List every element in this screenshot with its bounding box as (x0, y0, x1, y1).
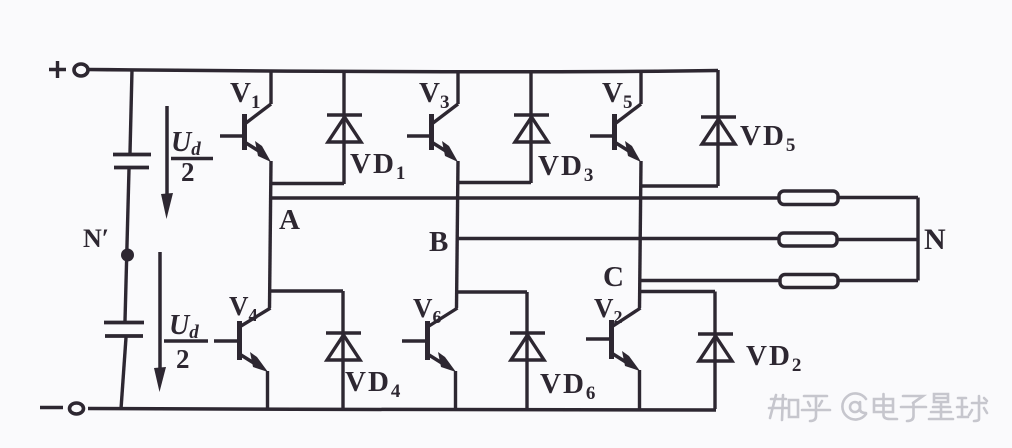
svg-text:N′: N′ (83, 224, 109, 253)
球 (957, 396, 987, 421)
label VD6 (540, 368, 595, 404)
wire leg 2 vertical (V3 emitter to V6 collector) (457, 161, 459, 308)
capacitor C upper (113, 155, 151, 168)
wire resistor B to N (837, 238, 918, 241)
watermark zhihu (769, 394, 987, 422)
wire top DC+ rail (88, 70, 718, 72)
wire V2 collector to VD2 cathode (639, 290, 715, 293)
label V5 (602, 77, 632, 113)
电 (874, 394, 897, 419)
wire resistor A to N (838, 196, 918, 199)
diode VD5 (701, 70, 736, 186)
星 (929, 394, 953, 419)
wire resistor C to N (838, 279, 918, 282)
transistor V3 (407, 70, 458, 162)
diode VD2 (698, 292, 733, 410)
label V2 (594, 293, 623, 327)
label Ud/2 lower (164, 310, 208, 374)
wire VD5 anode to leg C (641, 184, 718, 187)
transistor V6 (402, 308, 458, 409)
label B (429, 226, 448, 258)
terminal - (minus) (40, 403, 84, 414)
label V1 (230, 77, 260, 113)
wire V4 collector to VD4 cathode (269, 289, 343, 292)
transistor V4 (214, 308, 271, 409)
label V4 (229, 291, 258, 325)
label VD2 (746, 340, 801, 376)
diode VD3 (514, 70, 549, 183)
wire left DC-link branch upper (130, 70, 132, 153)
@ (842, 394, 866, 420)
label VD4 (345, 366, 401, 402)
label N (924, 223, 946, 256)
wire V6 collector to VD6 cathode (456, 290, 527, 293)
resistor load phase B (779, 233, 837, 246)
label V6 (413, 293, 442, 327)
wire phase A output (271, 196, 780, 199)
arrow Ud/2 lower (154, 252, 166, 392)
label VD5 (740, 120, 795, 156)
svg-text:C: C (603, 261, 624, 293)
wire leg 1 vertical (V1 emitter to V4 collector) (270, 161, 272, 308)
wire neutral vertical N (916, 198, 919, 281)
svg-text:2: 2 (176, 344, 190, 374)
wire VD1 anode to leg A (271, 182, 344, 185)
wire left DC-link branch lower (121, 338, 126, 410)
diode VD1 (327, 70, 362, 184)
diode VD4 (326, 291, 361, 409)
svg-text:A: A (279, 204, 300, 236)
知 (769, 395, 798, 420)
wire phase B output (458, 237, 780, 240)
wire VD3 anode to leg B (458, 181, 531, 184)
label VD1 (350, 148, 405, 184)
wire phase C output (641, 279, 781, 282)
wire leg 3 vertical (V5 emitter to V2 collector) (640, 161, 642, 308)
capacitor C lower (104, 323, 144, 337)
diode VD6 (510, 292, 545, 409)
svg-text:B: B (429, 226, 448, 258)
terminal + (plus) (49, 61, 88, 78)
svg-text:2: 2 (181, 157, 195, 187)
wire bottom DC- rail (88, 409, 716, 411)
label A (279, 204, 300, 236)
transistor V5 (590, 70, 641, 162)
resistor load phase A (779, 191, 838, 205)
arrow Ud/2 upper (161, 106, 173, 219)
label N' (83, 224, 109, 253)
label C (603, 261, 624, 293)
乎 (802, 396, 830, 421)
node N' dot (121, 249, 134, 262)
transistor V1 (220, 70, 271, 162)
label V3 (419, 77, 449, 113)
label VD3 (538, 150, 593, 186)
resistor load phase C (780, 275, 838, 288)
子 (901, 396, 926, 421)
svg-text:N: N (924, 223, 946, 256)
label Ud/2 upper (171, 127, 213, 187)
wire between capacitors (125, 169, 129, 321)
transistor V2 (586, 308, 641, 409)
